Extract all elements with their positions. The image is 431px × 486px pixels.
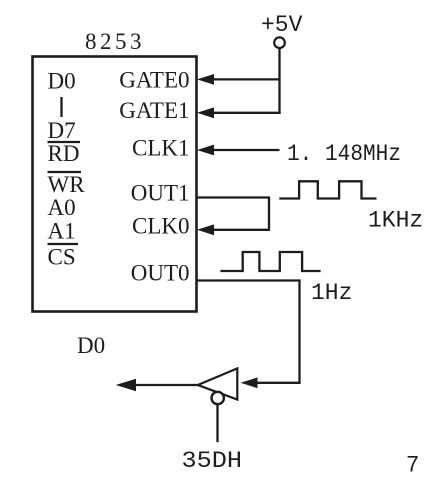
svg-text:1. 148MHz: 1. 148MHz (287, 141, 401, 167)
svg-text:OUT0: OUT0 (131, 261, 190, 286)
svg-text:RD: RD (48, 141, 80, 166)
svg-text:A0: A0 (48, 195, 76, 220)
svg-text:WR: WR (48, 172, 86, 197)
svg-text:1Hz: 1Hz (311, 280, 352, 306)
svg-text:D0: D0 (77, 333, 105, 358)
svg-text:A1: A1 (48, 219, 76, 244)
svg-text:CS: CS (48, 245, 76, 270)
svg-text:35DH: 35DH (182, 448, 243, 474)
svg-text:GATE1: GATE1 (119, 98, 189, 123)
svg-text:1KHz: 1KHz (368, 208, 423, 234)
svg-text:8253: 8253 (85, 29, 145, 54)
svg-text:D7: D7 (48, 118, 76, 143)
svg-text:GATE0: GATE0 (119, 68, 189, 93)
svg-text:7: 7 (407, 452, 419, 477)
svg-text:D0: D0 (48, 69, 76, 94)
svg-text:OUT1: OUT1 (131, 181, 190, 206)
svg-text:+5V: +5V (261, 12, 303, 38)
svg-text:CLK1: CLK1 (132, 136, 190, 161)
svg-text:CLK0: CLK0 (132, 214, 190, 239)
